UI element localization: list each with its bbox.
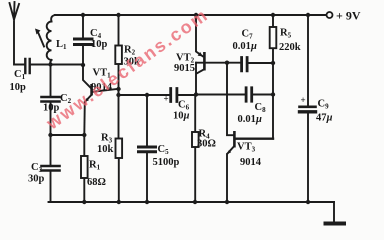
capacitor C2 [42, 97, 60, 102]
svg-text:C9: C9 [318, 99, 330, 111]
svg-text:5100p: 5100p [153, 157, 180, 168]
wire C8 to R5 column [253, 94, 273, 96]
wire collector node to C6 [119, 94, 170, 96]
svg-text:9015: 9015 [174, 63, 195, 74]
wire node D to C8 [196, 94, 245, 96]
wire ground bottom rail [49, 201, 335, 203]
resistor R5 [272, 15, 274, 139]
resistor R3 [118, 89, 120, 202]
wire +9V top supply rail [55, 14, 326, 16]
capacitor C7 [242, 58, 248, 71]
wire C6 to node D [179, 94, 197, 96]
capacitor C9 electrolytic [300, 106, 316, 109]
node R3 bottom on rail [117, 200, 121, 204]
svg-text:+: + [164, 94, 169, 104]
battery terminal +9V [327, 12, 333, 18]
capacitor C3 [42, 166, 60, 171]
svg-text:+ 9V: + 9V [336, 9, 361, 23]
antenna [10, 2, 25, 65]
node E (VT2 base wire / VT3 base junction) [225, 61, 229, 65]
svg-text:0.01µ: 0.01µ [238, 114, 262, 125]
node R4 bottom on rail [193, 200, 197, 204]
wire node B to R1 top [51, 134, 85, 136]
wire VT3 emitter to bottom rail [226, 154, 228, 202]
wire C7 to R5 column [249, 62, 273, 64]
svg-text:10p: 10p [10, 82, 27, 93]
wire node A down to C2 [50, 65, 52, 97]
svg-text:68Ω: 68Ω [87, 177, 106, 188]
transistor VT1 [83, 65, 90, 88]
svg-text:9014: 9014 [240, 157, 262, 168]
node A (C1/L1/C2 junction) [48, 62, 52, 66]
svg-text:VT3: VT3 [237, 142, 256, 154]
capacitor C4 [75, 39, 93, 45]
svg-text:47µ: 47µ [316, 113, 333, 124]
wire C1 to node A [32, 64, 84, 66]
wire VT1 emitter down [83, 102, 86, 135]
node VT2 emitter on rail [194, 13, 198, 17]
svg-text:C1: C1 [14, 69, 26, 81]
node C9 top on rail [306, 13, 310, 17]
wire C5 top [146, 95, 148, 146]
svg-text:C5: C5 [158, 144, 170, 156]
node C7 right junction [271, 61, 275, 65]
node R5 top on rail [271, 13, 275, 17]
node VT1 emitter junction [82, 133, 86, 137]
svg-text:30Ω: 30Ω [197, 139, 216, 150]
svg-text:R3: R3 [101, 133, 113, 145]
wire rail to C4 [82, 15, 84, 38]
svg-text:30p: 30p [28, 174, 45, 185]
svg-text:10µ: 10µ [173, 111, 190, 122]
svg-text:0.01µ: 0.01µ [233, 41, 257, 52]
resistor R4 [194, 95, 196, 203]
svg-text:10k: 10k [97, 144, 114, 155]
ground [326, 222, 345, 226]
capacitor C6 electrolytic [171, 89, 177, 102]
svg-text:C8: C8 [255, 102, 267, 114]
node C4 top on rail [81, 13, 85, 17]
node VT1 collector junction [116, 87, 120, 91]
node C9 bottom on rail [306, 200, 310, 204]
node C (C4/base junction) [81, 63, 85, 67]
svg-text:+: + [301, 95, 306, 105]
transistor VT2 [196, 15, 203, 56]
wire rail to C9 [307, 15, 309, 106]
node D (C6/VT2/R4/C8 junction) [194, 92, 198, 96]
svg-text:R5: R5 [280, 28, 292, 40]
node B (emitter wire junction) [48, 133, 52, 137]
node R2 top on rail [116, 13, 120, 17]
wire C3 to bottom rail [50, 172, 52, 202]
node collector wire junction [116, 93, 120, 97]
wire C5 to bottom rail [146, 154, 148, 203]
wire C9 to bottom rail [307, 114, 309, 202]
node C5 top junction [145, 93, 149, 97]
inductor L1 [47, 15, 55, 65]
node R1 bottom on rail [82, 200, 86, 204]
svg-text:10p: 10p [91, 39, 108, 50]
node C5 bottom on rail [145, 200, 149, 204]
svg-text:220k: 220k [279, 42, 301, 53]
capacitor C1 [25, 59, 29, 73]
resistor R2 [118, 15, 120, 89]
wire ground drop [333, 202, 335, 221]
node C8 right junction [271, 92, 275, 96]
transistor VT3 [227, 63, 233, 136]
L1 adjustable-core arrow [38, 31, 45, 47]
svg-text:C7: C7 [242, 29, 254, 41]
capacitor C5 [139, 147, 156, 152]
wire C2 to C3 [50, 103, 52, 165]
capacitor C8 [246, 88, 252, 101]
svg-text:C3: C3 [31, 162, 43, 174]
node VT3 emitter on rail [225, 200, 229, 204]
resistor R1 [83, 135, 85, 202]
wire C4 to node C [82, 47, 84, 66]
svg-text:L1: L1 [56, 39, 67, 51]
svg-text:R1: R1 [89, 160, 101, 172]
